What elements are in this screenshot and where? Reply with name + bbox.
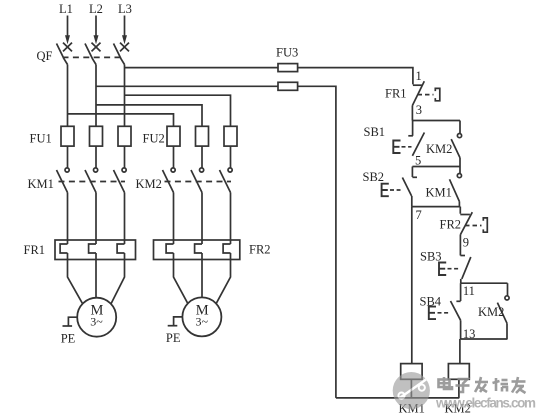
wire: SB4 to node 13	[460, 320, 462, 339]
wire: FR1 to node 3	[411, 106, 413, 121]
aux contact KM1 (5-7): wire down	[459, 167, 461, 174]
svg-text:7: 7	[416, 208, 422, 222]
pushbutton SB4: blade	[451, 301, 461, 320]
svg-text:PE: PE	[166, 331, 181, 345]
PE ground connection	[174, 317, 183, 326]
PE ground connection	[68, 317, 77, 326]
thermal relay heater element	[166, 244, 173, 253]
node 3 branch line	[412, 120, 460, 122]
KM1 linkage dashed line	[59, 181, 126, 183]
wire: KM1 coil to bottom rail	[410, 379, 412, 398]
aux contact KM2 (3-5): wire down	[459, 121, 461, 134]
watermark chinese text 电子发烧友	[439, 377, 526, 393]
pushbutton SB2: fixed contact stub	[411, 167, 413, 178]
thermal relay heater element	[89, 244, 96, 253]
thermal relay heater element	[223, 244, 230, 253]
wire through fuse down to contactor	[67, 146, 69, 168]
aux contact KM2 (11-13): wire to node 13	[506, 323, 508, 339]
svg-text:FU3: FU3	[276, 46, 298, 60]
pushbutton SB2: dashed link	[390, 189, 401, 191]
wire: L2 tap to FU2 phase b	[96, 105, 202, 126]
circuit breaker QF pole: X contact	[63, 43, 72, 52]
thermal relay heater element	[117, 244, 124, 253]
wire: SB2 to node 7	[411, 196, 413, 207]
svg-text:13: 13	[463, 327, 476, 341]
svg-text:PE: PE	[61, 332, 76, 346]
wire: contact to thermal relay	[124, 193, 126, 245]
thermal contact FR1: actuator bracket	[435, 88, 440, 100]
thermal contact FR2: actuator bracket	[483, 218, 487, 232]
pushbutton SB4: operator E	[429, 307, 436, 320]
aux contact KM1 (5-7): wire to node 7	[458, 202, 460, 207]
circuit breaker QF pole: X contact	[92, 43, 101, 52]
wire: ladder rail node 7 down to KM1 coil	[411, 207, 413, 364]
thermal contact FR2: blade	[460, 212, 472, 234]
wire through fuse down to contactor	[124, 146, 126, 168]
fuse rectangle	[196, 126, 209, 146]
contactor main contact: pivot circle	[94, 168, 98, 172]
contactor main contact: pivot circle	[122, 168, 126, 172]
aux contact KM1 (5-7): blade	[450, 179, 460, 201]
pushbutton SB1: dashed link	[402, 146, 412, 148]
wire: middle phase to motor	[95, 253, 97, 298]
wire: SB3 to node 11	[460, 279, 462, 283]
contactor main contact: pivot circle	[228, 168, 232, 172]
thermal relay heater element	[195, 244, 202, 253]
aux contact KM2 (3-5): blade	[451, 139, 460, 158]
wire: L2 tap to control circuit (through FU3 lower, down to bottom rail)	[96, 85, 278, 87]
wire: phase rail down to FU1	[67, 65, 69, 127]
contactor main contact: blade	[220, 170, 231, 193]
svg-text:SB2: SB2	[363, 170, 385, 184]
incoming supply arrow	[95, 16, 97, 38]
contactor main contact: pivot circle	[65, 168, 69, 172]
fuse rectangle	[167, 126, 180, 146]
wire: right phase to motor	[216, 253, 230, 303]
wire: L3 tap to FU2 phase c	[125, 95, 231, 126]
fuse rectangle	[118, 126, 131, 146]
pushbutton SB3: blade	[462, 257, 471, 279]
wire: contact to thermal relay	[173, 193, 175, 245]
contactor main contact: blade	[57, 170, 68, 193]
wire: node 13 to KM2 coil	[459, 339, 461, 364]
thermal contact FR2: dashed actuator link	[465, 225, 482, 227]
svg-text:SB4: SB4	[420, 294, 442, 308]
svg-text:3~: 3~	[195, 314, 208, 328]
wire: L1 tap to FU2 phase a	[68, 114, 174, 126]
svg-text:FU1: FU1	[30, 132, 52, 146]
svg-text:L3: L3	[118, 2, 132, 16]
aux contact KM2 (11-13): pivot circle	[505, 296, 509, 300]
thermal contact FR2: wire down	[459, 207, 461, 214]
svg-text:SB1: SB1	[364, 125, 386, 139]
svg-text:5: 5	[415, 154, 421, 168]
wire: right phase to motor	[111, 253, 124, 304]
wire: phase rail down to FU1	[95, 65, 97, 127]
circuit breaker QF pole: X contact	[120, 43, 129, 52]
wire: left phase to motor	[174, 253, 188, 303]
pushbutton SB1: operator E	[393, 141, 400, 154]
node 7 junction line	[412, 206, 461, 208]
thermal contact FR1: dashed actuator link	[418, 94, 434, 96]
motor circle M 3~	[77, 298, 116, 337]
wire: middle phase to motor	[201, 253, 203, 298]
aux contact KM2 (11-13): wire down	[507, 283, 509, 296]
wire: FR2 to SB3	[459, 235, 461, 256]
svg-text:KM1: KM1	[28, 177, 54, 191]
pushbutton SB3: fixed contact tick	[460, 255, 465, 257]
svg-text:L1: L1	[59, 2, 73, 16]
pushbutton SB1: fixed contact stub	[412, 121, 414, 136]
wire: L3 tap to control circuit (top, through FU3 upper)	[125, 67, 279, 69]
pushbutton SB3: dashed link	[448, 268, 460, 270]
circuit breaker QF pole: blade	[57, 44, 68, 65]
aux contact KM2 (3-5): wire to node 5	[459, 158, 461, 167]
svg-text:1: 1	[416, 69, 422, 83]
wire: contact to thermal relay	[67, 193, 69, 245]
wire: contact to thermal relay	[95, 193, 97, 245]
fuse rectangle	[224, 126, 237, 146]
thermal relay FR2 box	[154, 240, 240, 260]
svg-text:3: 3	[416, 103, 422, 117]
svg-text:www.elecfans.com: www.elecfans.com	[435, 396, 536, 411]
wire through fuse down to contactor	[201, 146, 203, 168]
aux contact KM2 (11-13): blade	[497, 303, 507, 324]
KM2 linkage dashed line	[165, 181, 232, 183]
pushbutton SB1: blade	[412, 133, 424, 156]
svg-text:QF: QF	[37, 49, 53, 63]
aux contact KM1 (5-7): pivot circle	[457, 174, 461, 178]
node 5 junction line	[412, 166, 460, 168]
svg-text:KM2: KM2	[478, 305, 504, 319]
svg-text:FR2: FR2	[249, 243, 271, 257]
contactor main contact: blade	[191, 170, 202, 193]
node 13 junction line	[461, 338, 508, 340]
incoming supply arrow	[67, 16, 69, 38]
fuse rectangle	[61, 126, 74, 146]
coil KM2	[448, 364, 469, 380]
watermark logo disc	[393, 372, 430, 409]
thermal relay FR1 box	[55, 240, 136, 260]
svg-text:SB3: SB3	[420, 249, 442, 263]
svg-text:FR2: FR2	[440, 218, 462, 232]
svg-text:KM1: KM1	[426, 185, 452, 199]
incoming supply arrow	[124, 16, 126, 38]
bottom return rail	[336, 397, 459, 399]
contactor main contact: pivot circle	[200, 168, 204, 172]
wire: phase rail down to FU1	[124, 65, 126, 127]
svg-text:KM2: KM2	[426, 142, 452, 156]
circuit breaker QF pole: blade	[114, 44, 125, 65]
wire through fuse down to contactor	[95, 146, 97, 168]
svg-text:3~: 3~	[90, 315, 103, 329]
svg-text:FR1: FR1	[385, 87, 407, 101]
thermal contact FR1: fixed contact tick	[413, 84, 423, 86]
pushbutton SB2: operator E	[382, 184, 389, 197]
node 11 junction line	[461, 282, 508, 284]
aux contact KM2 (3-5): pivot circle	[457, 134, 461, 138]
wire through fuse down to contactor	[173, 146, 175, 168]
pushbutton SB4: dashed link	[438, 312, 450, 314]
thermal relay heater element	[60, 244, 67, 253]
contactor main contact: blade	[85, 170, 96, 193]
pushbutton SB2: blade	[402, 178, 411, 197]
svg-text:L2: L2	[89, 2, 103, 16]
fuse FU3 lower	[278, 82, 298, 90]
pushbutton SB3: operator E	[439, 263, 446, 276]
fuse FU3 upper	[278, 64, 298, 72]
motor circle M 3~	[182, 297, 221, 336]
circuit breaker QF pole: blade	[85, 44, 96, 65]
svg-text:11: 11	[463, 284, 475, 298]
pushbutton SB4: fixed contact stub	[460, 283, 462, 301]
svg-text:9: 9	[463, 236, 469, 250]
svg-text:FR1: FR1	[24, 243, 46, 257]
wire: left phase to motor	[68, 253, 83, 304]
svg-text:FU2: FU2	[143, 132, 165, 146]
QF linkage dashed line	[63, 56, 121, 58]
coil KM1	[401, 364, 422, 380]
wire: KM2 coil to bottom rail	[458, 379, 460, 398]
contactor main contact: blade	[163, 170, 174, 193]
fuse rectangle	[90, 126, 103, 146]
thermal contact FR2: fixed contact tick	[460, 214, 470, 216]
thermal contact FR1: blade	[412, 81, 424, 105]
wire: contact to thermal relay	[230, 193, 232, 245]
contactor main contact: pivot circle	[171, 168, 175, 172]
svg-text:KM2: KM2	[136, 177, 162, 191]
wire: contact to thermal relay	[201, 193, 203, 245]
wire through fuse down to contactor	[230, 146, 232, 168]
contactor main contact: blade	[114, 170, 125, 193]
